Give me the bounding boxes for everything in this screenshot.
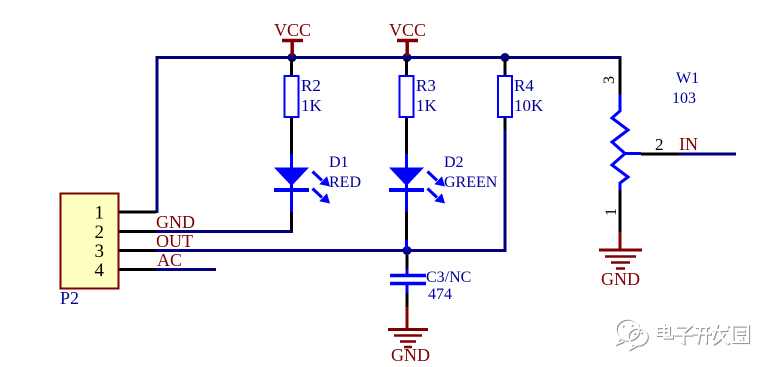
svg-text:R2: R2 — [301, 76, 321, 95]
svg-text:GREEN: GREEN — [444, 174, 498, 191]
svg-text:GND: GND — [391, 345, 430, 365]
svg-text:VCC: VCC — [389, 20, 426, 40]
svg-text:1: 1 — [603, 208, 620, 216]
svg-text:D2: D2 — [444, 154, 464, 171]
svg-text:P2: P2 — [60, 288, 79, 308]
svg-text:1K: 1K — [416, 96, 438, 115]
svg-text:R4: R4 — [514, 76, 534, 95]
svg-text:GND: GND — [156, 212, 195, 232]
svg-text:1: 1 — [95, 203, 105, 224]
svg-text:R3: R3 — [416, 76, 436, 95]
svg-text:VCC: VCC — [274, 20, 311, 40]
svg-text:474: 474 — [428, 286, 452, 303]
svg-text:IN: IN — [679, 134, 698, 154]
svg-text:RED: RED — [329, 174, 361, 191]
svg-text:3: 3 — [601, 76, 618, 84]
svg-text:W1: W1 — [676, 70, 699, 87]
svg-text:1K: 1K — [301, 96, 323, 115]
svg-text:2: 2 — [655, 135, 664, 154]
svg-text:4: 4 — [95, 260, 105, 281]
svg-text:AC: AC — [157, 250, 182, 270]
svg-text:D1: D1 — [329, 154, 349, 171]
svg-text:103: 103 — [672, 90, 696, 107]
svg-text:3: 3 — [95, 241, 105, 262]
svg-text:OUT: OUT — [156, 231, 193, 251]
svg-text:10K: 10K — [514, 96, 544, 115]
svg-text:C3/NC: C3/NC — [426, 269, 471, 286]
svg-text:GND: GND — [601, 269, 640, 289]
svg-text:2: 2 — [95, 222, 105, 243]
